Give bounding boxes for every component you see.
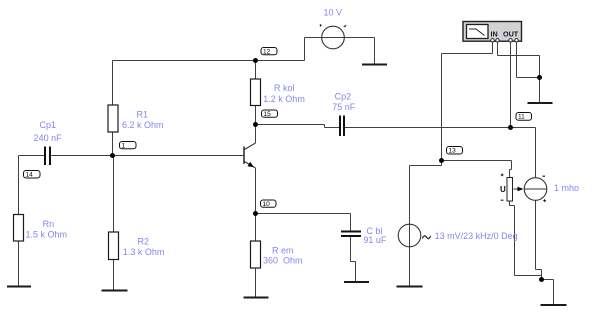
svg-text:R kol: R kol — [274, 83, 295, 93]
svg-text:12: 12 — [263, 49, 271, 56]
transistor Q1 — [244, 143, 256, 168]
wire OUT- drop — [516, 42, 518, 78]
wire node 13 to U port — [442, 160, 512, 162]
wire base rail node 1 — [19, 155, 45, 157]
svg-text:10: 10 — [263, 201, 271, 208]
wire G1 junction drop — [541, 270, 543, 280]
capacitor Cp1 — [45, 147, 50, 166]
ground top right — [528, 102, 553, 104]
wire IN+ horizontal — [442, 53, 493, 55]
node box 13 — [447, 147, 463, 155]
svg-text:91 uF: 91 uF — [363, 235, 387, 245]
wire OUT- horizontal — [517, 77, 540, 79]
svg-text:360 Ohm: 360 Ohm — [263, 255, 303, 265]
wire R1 bottom to node 1 — [112, 132, 114, 156]
junction node 1 — [110, 153, 115, 158]
svg-text:OUT: OUT — [503, 30, 519, 39]
ground sine source — [397, 285, 423, 287]
wire C bl bottom — [350, 237, 352, 262]
wire 10V through source — [305, 37, 375, 39]
vccs G1 U plus mark — [501, 174, 504, 175]
wire IN- to junction — [539, 56, 541, 78]
junction node 12 — [253, 58, 258, 63]
svg-text:11: 11 — [518, 114, 525, 121]
svg-text:13: 13 — [449, 148, 457, 155]
wire R em bottom to ground — [255, 268, 257, 298]
wire G1 circle bottom — [535, 201, 537, 270]
wire bottom right ground drop — [553, 280, 555, 306]
resistor R1 — [108, 105, 118, 132]
wire IN+ to node 13 — [441, 54, 443, 166]
label sine tilde — [422, 236, 430, 239]
junction node 11 — [508, 125, 513, 130]
svg-text:15: 15 — [264, 111, 272, 118]
svg-text:R1: R1 — [137, 110, 149, 120]
source V 10V circle — [322, 26, 345, 49]
wire 10V left riser — [304, 38, 306, 61]
node box 11 — [516, 113, 532, 121]
vccs G1 U port — [507, 178, 513, 202]
node box 10 — [261, 200, 277, 208]
wire top rail node 12 — [113, 60, 305, 62]
bode plotter box — [463, 22, 522, 42]
svg-text:U: U — [500, 185, 506, 194]
junction node 13 — [439, 158, 444, 163]
wire junction to ground top right — [539, 78, 541, 104]
svg-text:6.2 k Ohm: 6.2 k Ohm — [122, 120, 164, 130]
wire C bl ground drop — [355, 262, 357, 282]
wire U port bottom drop — [514, 206, 516, 276]
svg-text:13 mV/23 kHz/0 Deg: 13 mV/23 kHz/0 Deg — [435, 231, 518, 241]
wire IN+ drop — [492, 42, 494, 54]
svg-text:1.3 k Ohm: 1.3 k Ohm — [123, 247, 165, 257]
wire U port bottom — [509, 201, 511, 206]
svg-text:1.2 k Ohm: 1.2 k Ohm — [263, 94, 305, 104]
svg-text:10 V: 10 V — [324, 8, 343, 18]
wire OUT+ to node 11 — [510, 42, 512, 128]
svg-text:R em: R em — [272, 245, 294, 255]
svg-text:1 mho: 1 mho — [554, 183, 579, 193]
source sine circle — [398, 224, 421, 247]
resistor Rn — [14, 215, 24, 242]
svg-text:75 nF: 75 nF — [332, 102, 356, 112]
bode plotter terminals — [491, 39, 518, 42]
wire bottom right to ground — [542, 279, 554, 281]
wire to Cp2 left — [325, 127, 340, 129]
wire node 13 to source — [410, 165, 442, 167]
svg-text:240 nF: 240 nF — [34, 133, 63, 143]
vccs G1 diameter line — [524, 188, 547, 190]
capacitor C bl — [341, 232, 361, 237]
junction top right — [537, 75, 542, 80]
vccs G1 U minus mark — [501, 200, 504, 201]
source V 10V plus mark — [343, 25, 346, 28]
ground bottom right — [541, 304, 567, 306]
transistor Q1 emitter arrow — [248, 162, 255, 167]
wire node 15 horizontal — [256, 124, 325, 126]
wire R2 branch top — [113, 156, 115, 233]
wire Cp1 right to transistor base — [51, 155, 244, 157]
junction node 15 — [253, 122, 258, 127]
junction bottom right — [539, 277, 544, 282]
capacitor Cp2 — [340, 116, 344, 137]
wire IN- drop — [497, 42, 499, 56]
ground Rn — [7, 285, 31, 287]
wire R kol top — [255, 61, 257, 80]
resistor R2 — [109, 232, 119, 260]
wire Rn bottom to ground — [18, 241, 20, 287]
wire node 11 to G1 top — [511, 127, 536, 129]
ground C bl — [344, 281, 369, 283]
node box 1 — [120, 142, 137, 150]
wire U port bottom jog — [510, 205, 515, 207]
wire C bl top drop — [350, 214, 352, 232]
wire R2 bottom to ground — [113, 260, 115, 291]
vccs G1 plus mark — [543, 200, 546, 201]
wire R em top — [255, 214, 257, 242]
wire U port top drop — [511, 161, 513, 170]
svg-text:Cp2: Cp2 — [335, 91, 352, 101]
vccs G1 minus mark — [543, 176, 546, 177]
wire U port bottom horizontal — [515, 275, 542, 277]
wire Rn branch top — [18, 156, 20, 216]
wire source top — [409, 166, 411, 287]
bode plotter screen — [467, 25, 489, 39]
resistor R em — [251, 241, 261, 268]
svg-text:IN: IN — [491, 30, 498, 39]
ground R em — [244, 296, 269, 298]
wire G1 circle bottom jog — [536, 269, 542, 271]
wire G1 circle top riser — [535, 128, 537, 179]
wire collector — [255, 125, 257, 144]
wire C bl jog — [351, 261, 356, 263]
node box 14 — [24, 171, 41, 179]
wire R1 top — [112, 61, 114, 106]
ground 10V source — [362, 63, 387, 65]
resistor R kol — [251, 79, 261, 106]
junction node 10 — [253, 211, 258, 216]
svg-text:Cp1: Cp1 — [40, 120, 57, 130]
source V 10V minus mark — [320, 24, 322, 26]
svg-text:R2: R2 — [138, 236, 150, 246]
wire node 10 horizontal — [256, 213, 351, 215]
ground R2 — [102, 289, 128, 291]
node box 12 — [261, 48, 277, 56]
wire node 15 jog — [324, 125, 326, 128]
svg-text:14: 14 — [26, 172, 34, 179]
wire R kol bottom node 15 — [255, 106, 257, 125]
wire emitter to node 10 — [255, 168, 257, 214]
svg-text:Rn: Rn — [43, 219, 55, 229]
svg-text:1: 1 — [122, 143, 126, 150]
wire U port top jog — [510, 169, 512, 171]
wire 10V right drop — [374, 38, 376, 65]
wire U port top — [509, 170, 511, 178]
wire IN- horizontal — [498, 55, 540, 57]
svg-text:1.5 k Ohm: 1.5 k Ohm — [26, 230, 68, 240]
wire Cp2 right to node 11 — [345, 127, 511, 129]
vccs G1 arrow — [514, 188, 521, 190]
bode plotter curve — [469, 29, 485, 36]
node box 15 — [262, 110, 278, 118]
vccs G1 circle — [524, 178, 547, 201]
